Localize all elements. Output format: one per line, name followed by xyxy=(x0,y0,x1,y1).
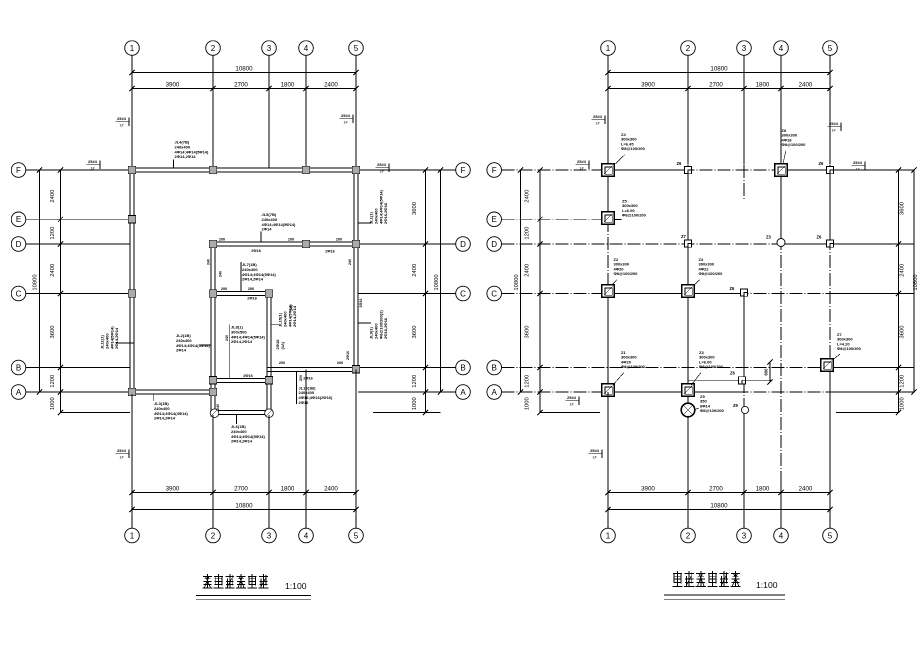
wall vertical 3 C-Bp xyxy=(743,292,745,380)
axis bubble 4 top xyxy=(299,41,314,56)
svg-text:1#: 1# xyxy=(856,168,860,172)
axis line 4 stem top xyxy=(305,55,307,168)
beam JL7 along axis C middle box top xyxy=(211,291,271,293)
svg-text:240: 240 xyxy=(216,404,220,410)
column Z9 round at 2 below A xyxy=(681,403,695,417)
svg-text:2: 2 xyxy=(686,531,691,540)
leader Z4 xyxy=(614,155,626,166)
svg-text:4: 4 xyxy=(304,44,309,53)
leader JL2 xyxy=(201,344,212,346)
svg-text:1800: 1800 xyxy=(281,485,295,492)
svg-text:25#4: 25#4 xyxy=(88,159,98,164)
pad square at (269,380) xyxy=(265,377,272,384)
svg-text:1800: 1800 xyxy=(756,485,770,492)
svg-text:2: 2 xyxy=(211,44,216,53)
svg-text:200: 200 xyxy=(299,375,303,381)
axis line 3 stem bottom xyxy=(268,415,270,528)
axis line A across xyxy=(502,391,899,393)
title right underline double xyxy=(664,594,785,596)
svg-text:2: 2 xyxy=(211,531,216,540)
axis line 3 stem bottom xyxy=(743,414,745,528)
svg-text:240: 240 xyxy=(207,259,211,265)
svg-text:Z6: Z6 xyxy=(819,161,825,166)
axis line 5 stem bottom xyxy=(829,372,831,528)
svg-text:100: 100 xyxy=(288,237,294,241)
svg-text:25#4: 25#4 xyxy=(117,116,127,121)
svg-text:5: 5 xyxy=(828,44,833,53)
pad square at (356,170) xyxy=(352,166,359,173)
elevation tag xyxy=(340,113,354,125)
axis line 1 stem bottom xyxy=(131,394,133,528)
leader JL7 xyxy=(240,262,242,292)
round column bottom-right of protrusion xyxy=(265,409,274,418)
leader Z4b xyxy=(694,280,701,286)
svg-text:D: D xyxy=(16,240,22,249)
svg-text:C: C xyxy=(491,289,497,298)
svg-text:3900: 3900 xyxy=(641,81,655,88)
side dimension segment line xyxy=(425,170,427,413)
svg-text:1: 1 xyxy=(130,531,135,540)
leader JL4 xyxy=(173,160,175,169)
svg-text:E: E xyxy=(492,215,497,224)
axis bubble B right-plan-left xyxy=(487,360,502,375)
svg-text:2Φ16: 2Φ16 xyxy=(346,351,350,360)
svg-text:2Φ16: 2Φ16 xyxy=(359,299,363,308)
axis line C plan to bubble xyxy=(358,293,456,295)
leader JL9 rotated xyxy=(358,322,371,324)
pad square at (213,392) xyxy=(209,388,216,395)
axis bubble A left-outer xyxy=(11,385,26,400)
wall vertical 2 F-Z9 xyxy=(687,170,689,410)
axis bubble D left-outer xyxy=(11,237,26,252)
svg-text:A: A xyxy=(492,388,498,397)
svg-text:3: 3 xyxy=(267,44,272,53)
title left: foundation beam reinforcement diagram 1:100 xyxy=(203,574,213,588)
axis bubble 1 bottom xyxy=(601,528,616,543)
svg-text:1200: 1200 xyxy=(900,375,906,388)
column Z6 at 3-C xyxy=(740,289,747,296)
svg-text:25#4: 25#4 xyxy=(829,121,839,126)
side dimension segment line xyxy=(898,170,900,413)
svg-text:C: C xyxy=(460,289,466,298)
small round column at 3 below A xyxy=(741,406,748,413)
svg-text:1#: 1# xyxy=(570,403,574,407)
axis bubble A right-plan-left xyxy=(487,385,502,400)
svg-text:4: 4 xyxy=(779,531,784,540)
svg-text:10800: 10800 xyxy=(434,274,440,290)
annotation rotated right of middle box xyxy=(278,304,298,327)
axis line 5 stem top xyxy=(829,55,831,164)
elevation tag xyxy=(852,160,866,172)
column Z6 at 2-F xyxy=(684,166,691,173)
leader JL8 xyxy=(229,325,231,379)
beam protrusion bottom JL6 xyxy=(211,410,271,412)
svg-text:5: 5 xyxy=(354,44,359,53)
axis line B across xyxy=(502,367,899,369)
svg-text:3600: 3600 xyxy=(525,326,531,339)
svg-text:2Φ18: 2Φ18 xyxy=(247,297,256,301)
svg-text:1#: 1# xyxy=(596,122,600,126)
beam JL4 along axis F top xyxy=(130,167,358,169)
axis line 5 stem bottom xyxy=(355,370,357,529)
axis line 3 stem top xyxy=(743,55,745,164)
svg-text:1#: 1# xyxy=(580,167,584,171)
wall vertical 1 F-E xyxy=(607,170,609,218)
svg-text:2400: 2400 xyxy=(525,264,531,277)
pad square at (132,293) xyxy=(128,290,135,297)
svg-text:A: A xyxy=(16,388,22,397)
pad square at (213,170) xyxy=(209,166,216,173)
svg-text:3: 3 xyxy=(267,531,272,540)
annotation JL1 rotated right side upper xyxy=(369,189,389,224)
column Z8 at 4-F xyxy=(775,164,788,177)
leader JL5 xyxy=(260,232,262,243)
svg-text:2700: 2700 xyxy=(709,485,723,492)
pad square at (269,293) xyxy=(265,290,272,297)
svg-text:2700: 2700 xyxy=(234,485,248,492)
svg-text:5: 5 xyxy=(354,531,359,540)
svg-text:1#: 1# xyxy=(593,456,597,460)
beam along axis 2 vertical xyxy=(210,242,212,415)
extension line at foot level xyxy=(540,412,600,414)
svg-text:200: 200 xyxy=(336,237,342,241)
svg-text:2400: 2400 xyxy=(50,264,56,277)
beam wall segment F 4-5 xyxy=(781,169,830,171)
axis bubble 3 bottom xyxy=(262,528,277,543)
column Z4 at 2-C xyxy=(682,285,695,298)
leader Z3 xyxy=(691,373,701,386)
svg-text:F: F xyxy=(16,166,21,175)
extension lines right plan to right dims xyxy=(836,169,914,171)
axis line B plan to bubble xyxy=(358,367,456,369)
svg-text:240: 240 xyxy=(219,271,223,277)
svg-text:200: 200 xyxy=(337,361,343,365)
column Z5 at 1-E xyxy=(602,212,615,225)
top dimension line segments xyxy=(132,88,356,90)
axis line 2 stem bottom xyxy=(212,415,214,528)
elevation tag xyxy=(576,159,590,171)
axis bubble C left-plan-right xyxy=(456,286,471,301)
top dimension line overall 10800 xyxy=(608,72,830,74)
pad square at (132,170) xyxy=(128,166,135,173)
axis bubble 5 bottom xyxy=(823,528,838,543)
beam along axis 1 left edge xyxy=(129,168,131,394)
bottom dimension line overall 10800 xyxy=(608,509,830,511)
svg-text:C: C xyxy=(16,289,22,298)
title right: ground floor column reinforcement diagram 1:100 xyxy=(673,571,683,586)
axis line E short xyxy=(502,218,615,220)
axis bubble 1 bottom xyxy=(125,528,140,543)
axis bubble 1 top xyxy=(601,41,616,56)
bottom dimension line segments xyxy=(132,492,356,494)
round column bottom-left of protrusion xyxy=(210,409,219,418)
pad square at (356,244) xyxy=(352,240,359,247)
svg-text:1#: 1# xyxy=(380,170,384,174)
axis bubble C left-outer xyxy=(11,286,26,301)
svg-text:10800: 10800 xyxy=(33,274,39,290)
axis line C across xyxy=(502,293,899,295)
beam JL3 along axis A bottom-left xyxy=(130,389,215,391)
axis line 1 stem bottom xyxy=(607,392,609,528)
svg-text:Z3: Z3 xyxy=(766,235,772,240)
axis line 1 vertical xyxy=(607,165,609,397)
svg-text:200: 200 xyxy=(219,237,225,241)
svg-text:1200: 1200 xyxy=(525,375,531,388)
column Z2 at 1-C xyxy=(602,285,615,298)
leader Z1 xyxy=(613,373,624,386)
leader Z8 xyxy=(783,151,786,164)
beam wall segment D 4-5 xyxy=(781,243,830,245)
svg-text:1000: 1000 xyxy=(900,397,906,410)
svg-text:A: A xyxy=(460,388,466,397)
svg-text:2400: 2400 xyxy=(799,485,813,492)
svg-text:25#4: 25#4 xyxy=(577,159,587,164)
svg-text:10800: 10800 xyxy=(235,502,253,509)
extension line foot right xyxy=(836,412,899,414)
beam along axis 5 right edge xyxy=(353,168,355,368)
svg-text:2400: 2400 xyxy=(900,264,906,277)
axis bubble 4 bottom xyxy=(299,528,314,543)
axis line 2 stem top xyxy=(212,55,214,168)
svg-text:B: B xyxy=(492,363,497,372)
svg-text:1:100: 1:100 xyxy=(285,581,307,591)
svg-text:25#4: 25#4 xyxy=(341,113,351,118)
axis line 4 stem bottom xyxy=(780,480,782,528)
axis line B from bubble to plan xyxy=(26,367,130,369)
svg-text:1:100: 1:100 xyxy=(756,580,778,590)
axis bubble 4 top xyxy=(774,41,789,56)
axis line E from bubble to plan xyxy=(26,218,130,220)
svg-text:1000: 1000 xyxy=(412,397,418,410)
svg-text:200: 200 xyxy=(248,287,254,291)
svg-text:1#: 1# xyxy=(120,456,124,460)
axis line 2 stem bottom xyxy=(687,419,689,528)
svg-text:3600: 3600 xyxy=(50,326,56,339)
axis line 5 vertical xyxy=(829,165,831,372)
svg-text:3: 3 xyxy=(742,44,747,53)
leader JL1 xyxy=(358,222,371,224)
dim 600 small xyxy=(769,362,771,382)
svg-text:1#: 1# xyxy=(120,124,124,128)
axis line D plan to bubble xyxy=(358,243,456,245)
leader Z2 xyxy=(612,280,617,286)
svg-text:1200: 1200 xyxy=(50,375,56,388)
axis bubble F left-outer xyxy=(11,163,26,178)
svg-text:F: F xyxy=(492,166,497,175)
axis bubble 2 bottom xyxy=(206,528,221,543)
beam along axis 3 vertical xyxy=(266,292,268,415)
svg-text:5: 5 xyxy=(828,531,833,540)
svg-text:2Φ18: 2Φ18 xyxy=(251,249,260,253)
leader rotated annotation xyxy=(271,323,281,325)
elevation tag xyxy=(116,448,130,460)
leader Z7 xyxy=(833,354,841,360)
svg-text:Z6: Z6 xyxy=(817,235,823,240)
wall line B-prime xyxy=(688,379,771,381)
annotation JL9 rotated right side lower xyxy=(369,310,389,339)
bottom dimension line overall 10800 xyxy=(132,509,356,511)
column Z7 at 5-B xyxy=(821,359,834,372)
side dimension segment line xyxy=(539,170,541,413)
axis bubble F left-plan-right xyxy=(456,163,471,178)
svg-text:3600: 3600 xyxy=(412,202,418,215)
axis bubble 1 top xyxy=(125,41,140,56)
leader Z9 xyxy=(695,408,699,410)
svg-text:240: 240 xyxy=(290,305,294,311)
small rotated label 2phi16 xyxy=(275,339,285,350)
axis line F from bubble to plan xyxy=(26,169,130,171)
axis bubble D left-plan-right xyxy=(456,237,471,252)
svg-text:240: 240 xyxy=(348,259,352,265)
svg-text:2400: 2400 xyxy=(799,81,813,88)
axis line C from bubble to plan xyxy=(26,293,130,295)
svg-text:4: 4 xyxy=(304,531,309,540)
axis line 4 stem bottom xyxy=(305,370,307,529)
pad square at (306,244) xyxy=(302,240,309,247)
pad square at (213,244) xyxy=(209,240,216,247)
column Z6 at 5-F xyxy=(826,166,833,173)
leader JL6 xyxy=(236,415,238,424)
beam middle box bottom xyxy=(211,377,271,379)
svg-text:D: D xyxy=(491,240,497,249)
beam wall segment F 1-2 xyxy=(608,169,688,171)
leader JL10 xyxy=(296,372,298,404)
svg-text:2Φ16: 2Φ16 xyxy=(303,377,312,381)
axis line D across xyxy=(502,243,899,245)
svg-text:2Φ16: 2Φ16 xyxy=(325,249,334,253)
svg-text:Z6: Z6 xyxy=(730,286,736,291)
svg-text:3600: 3600 xyxy=(900,326,906,339)
axis line D from bubble to plan xyxy=(26,243,130,245)
column Z6 at 5-D xyxy=(826,240,833,247)
svg-text:D: D xyxy=(460,240,466,249)
svg-text:1200: 1200 xyxy=(525,227,531,240)
svg-text:200: 200 xyxy=(221,287,227,291)
svg-text:E: E xyxy=(16,215,21,224)
svg-text:10800: 10800 xyxy=(235,65,253,72)
svg-text:1000: 1000 xyxy=(50,397,56,410)
wall vertical 1 C-A xyxy=(607,294,609,391)
svg-text:25#4: 25#4 xyxy=(593,114,603,119)
elevation tag xyxy=(828,121,842,133)
svg-text:1#: 1# xyxy=(344,121,348,125)
elevation tag xyxy=(592,114,606,126)
pad square at (306,170) xyxy=(302,166,309,173)
axis bubble B left-plan-right xyxy=(456,360,471,375)
svg-text:10800: 10800 xyxy=(913,274,919,290)
axis bubble D right-plan-left xyxy=(487,237,502,252)
svg-text:1800: 1800 xyxy=(756,81,770,88)
elevation tag xyxy=(116,116,130,128)
axis line 5 stem top xyxy=(355,55,357,168)
svg-text:2400: 2400 xyxy=(525,190,531,203)
svg-text:1000: 1000 xyxy=(525,397,531,410)
column Z7 at 2-D xyxy=(684,240,691,247)
svg-text:Z6: Z6 xyxy=(730,371,736,376)
pad square at (356,369) xyxy=(352,366,359,373)
svg-text:2700: 2700 xyxy=(709,81,723,88)
elevation tag xyxy=(589,448,603,460)
column Z1 at 1-A xyxy=(602,384,615,397)
svg-text:B: B xyxy=(460,363,465,372)
svg-text:10800: 10800 xyxy=(514,274,520,290)
axis bubble 5 bottom xyxy=(349,528,364,543)
axis line 3 stem xyxy=(743,165,745,200)
svg-text:3600: 3600 xyxy=(900,202,906,215)
svg-text:3: 3 xyxy=(742,531,747,540)
axis bubble 3 top xyxy=(737,41,752,56)
axis line 4 stem top xyxy=(780,55,782,164)
svg-text:B: B xyxy=(16,363,21,372)
pad square at (213,293) xyxy=(209,290,216,297)
extension line A right side xyxy=(362,391,456,393)
svg-text:2400: 2400 xyxy=(324,485,338,492)
svg-text:3600: 3600 xyxy=(412,326,418,339)
axis bubble C right-plan-left xyxy=(487,286,502,301)
column Z6 at 3-Bprime xyxy=(738,377,745,384)
axis line 1 stem top xyxy=(607,55,609,164)
axis bubble 4 bottom xyxy=(774,528,789,543)
svg-text:1: 1 xyxy=(130,44,135,53)
side dimension overall line xyxy=(913,170,915,392)
axis bubble 3 bottom xyxy=(737,528,752,543)
svg-text:4: 4 xyxy=(779,44,784,53)
elevation tag xyxy=(376,162,390,174)
axis line F across xyxy=(502,169,899,171)
annotation JL11 rotated left of axis 1 xyxy=(100,326,120,349)
svg-text:3900: 3900 xyxy=(166,485,180,492)
leader Z5 xyxy=(615,219,622,221)
svg-text:25#4: 25#4 xyxy=(590,448,600,453)
svg-text:2400: 2400 xyxy=(50,190,56,203)
bottom dimension line segments xyxy=(608,492,830,494)
side dimension overall line xyxy=(39,170,41,392)
beam wall segment A 1-3 xyxy=(608,391,744,393)
leader JL3 xyxy=(152,394,154,401)
top dimension line overall 10800 xyxy=(132,72,356,74)
pad square at (213,380) xyxy=(209,377,216,384)
axis line 2 stem top xyxy=(687,55,689,164)
column Z3 round at 4-D xyxy=(777,239,785,247)
svg-text:1: 1 xyxy=(606,44,611,53)
side dimension overall line xyxy=(440,170,442,392)
column Z4 at 1-F xyxy=(602,164,615,177)
svg-text:1200: 1200 xyxy=(50,227,56,240)
svg-text:2400: 2400 xyxy=(324,81,338,88)
axis bubble 2 top xyxy=(206,41,221,56)
axis bubble B left-outer xyxy=(11,360,26,375)
pad square at (132,219) xyxy=(128,216,135,223)
axis line F plan to bubble xyxy=(358,169,456,171)
axis line 1 stem top xyxy=(131,55,133,168)
axis bubble 5 top xyxy=(823,41,838,56)
svg-text:25#4: 25#4 xyxy=(567,395,577,400)
svg-text:2700: 2700 xyxy=(234,81,248,88)
axis bubble 2 top xyxy=(681,41,696,56)
beam JL5 along axis D xyxy=(211,241,358,243)
elevation tag xyxy=(87,159,101,171)
svg-text:200: 200 xyxy=(279,361,285,365)
svg-text:1200: 1200 xyxy=(412,375,418,388)
svg-text:2Φ16: 2Φ16 xyxy=(243,374,252,378)
beam wall segment C 1-3 xyxy=(608,293,744,295)
axis line 3 vertical xyxy=(743,290,745,414)
svg-text:240: 240 xyxy=(225,335,229,341)
side dimension overall line xyxy=(520,170,522,392)
axis line 4 vertical xyxy=(780,165,782,480)
axis line 3 stem top xyxy=(268,55,270,168)
svg-text:10800: 10800 xyxy=(710,502,728,509)
